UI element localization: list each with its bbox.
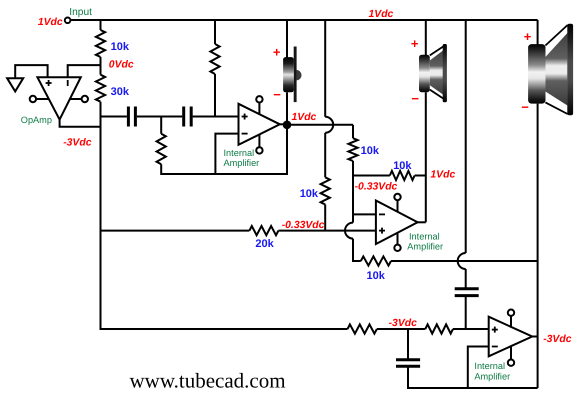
svg-text:10k: 10k (393, 160, 412, 172)
wire hop over 1Vdc wire (325, 117, 333, 133)
svg-text:Input: Input (69, 7, 92, 18)
svg-text:+: + (273, 45, 281, 60)
speaker SPK1 small (283, 47, 301, 103)
wire (465, 296, 467, 330)
svg-text:Internal: Internal (474, 361, 505, 371)
U2 power pin top (256, 96, 262, 114)
wire (214, 74, 216, 117)
resistor R9 20k (249, 226, 278, 250)
label Internal Amplifier U3 (407, 232, 443, 252)
svg-text:Amplifier: Amplifier (224, 158, 260, 168)
svg-text:10k: 10k (300, 188, 319, 200)
label SPK2 + (411, 36, 419, 51)
op-amp U4 body (489, 317, 533, 357)
wire (286, 20, 288, 58)
capacitor C2 (184, 107, 192, 127)
resistor R1 10k (96, 30, 130, 57)
node 0Vdc / wire (101, 57, 134, 75)
resistor R5 feedback (157, 134, 166, 164)
svg-text:1Vdc: 1Vdc (369, 9, 394, 20)
svg-text:1Vdc: 1Vdc (38, 17, 63, 28)
wire (101, 116, 127, 118)
label 1Vdc top rail (369, 9, 394, 20)
wire U1 + input (15, 65, 47, 78)
wire (425, 92, 427, 222)
wire (286, 92, 288, 125)
wire (353, 239, 361, 261)
svg-text:0Vdc: 0Vdc (109, 59, 134, 70)
label 1Vdc U2 output (292, 112, 317, 123)
wire (352, 125, 354, 138)
resistor R12 (425, 324, 453, 333)
wire U1 output -3Vdc (60, 119, 101, 127)
svg-text:+: + (524, 29, 532, 44)
wire (425, 20, 427, 55)
wire junction drop (160, 117, 162, 134)
svg-text:10k: 10k (111, 41, 130, 53)
input terminal (38, 7, 92, 28)
svg-text:Amplifier: Amplifier (407, 242, 443, 252)
label SPK3 + (524, 29, 532, 44)
svg-text:Internal: Internal (224, 148, 255, 158)
resistor R11 (348, 324, 377, 333)
wire (137, 116, 182, 118)
svg-text:30k: 30k (111, 86, 130, 98)
svg-text:−: − (273, 87, 281, 102)
label SPK1 + (273, 45, 281, 60)
wire (193, 116, 239, 118)
wire (100, 20, 102, 30)
U4 power pin top (508, 310, 514, 327)
op-amp U2 body (239, 104, 280, 145)
svg-text:10k: 10k (367, 270, 386, 282)
svg-text:1Vdc: 1Vdc (292, 112, 317, 123)
U1 power pin left (30, 96, 49, 102)
op-amp U1 OpAmp body (37, 77, 80, 119)
U3 power pin top (394, 194, 400, 212)
resistor R10 10k (361, 256, 391, 282)
wire top rail 1Vdc (71, 19, 538, 21)
svg-text:-3Vdc: -3Vdc (543, 334, 572, 345)
wire U4 - input (468, 347, 489, 389)
wire (324, 205, 326, 231)
resistor R7 10k (348, 138, 379, 161)
U4 power pin bottom (508, 346, 514, 366)
wire (377, 328, 425, 330)
U1 power pin right (70, 96, 88, 102)
U3 power pin bottom (394, 233, 400, 251)
capacitor C4 (396, 360, 420, 367)
wire (214, 20, 216, 44)
svg-text:−: − (521, 100, 529, 115)
svg-text:-0.33Vdc: -0.33Vdc (355, 181, 398, 192)
speaker SPK2 mid (419, 44, 447, 102)
label -3Vdc wire (389, 318, 418, 329)
resistor R3 (210, 44, 219, 74)
label Internal Amplifier U2 (224, 148, 260, 168)
label -0.33Vdc node (355, 181, 398, 192)
wire (415, 175, 426, 177)
svg-text:OpAmp: OpAmp (21, 115, 52, 125)
speaker SPK3 big (528, 24, 573, 116)
label 1Vdc U3 output (430, 169, 455, 180)
wire (101, 230, 250, 232)
wire (465, 20, 467, 253)
wire (408, 366, 538, 388)
wire U4 output (531, 336, 537, 338)
label OpAmp (21, 115, 52, 125)
wire (391, 260, 538, 262)
label -0.33Vdc wire (282, 220, 325, 231)
svg-text:20k: 20k (255, 238, 274, 250)
wire (407, 329, 409, 360)
resistor R6 10k (300, 177, 330, 204)
svg-text:1Vdc: 1Vdc (430, 169, 455, 180)
label SPK2 - (411, 91, 419, 106)
resistor R2 30k (96, 75, 130, 102)
label -3Vdc U4 output (543, 334, 572, 345)
wire U3 - input (353, 213, 376, 215)
label Internal Amplifier U4 (474, 361, 510, 381)
capacitor C3 (455, 289, 479, 296)
svg-text:www.tubecad.com: www.tubecad.com (130, 368, 286, 392)
wire (537, 20, 539, 45)
svg-text:Amplifier: Amplifier (474, 371, 510, 381)
wire (324, 20, 326, 117)
site text www.tubecad.com (130, 368, 286, 392)
wire (537, 104, 539, 388)
wire (101, 328, 348, 330)
node U2 output junction dot (283, 121, 292, 130)
label SPK1 - (273, 87, 281, 102)
wire (161, 125, 287, 174)
wire U1 - input to node 0Vdc (68, 65, 101, 77)
wire U2 - input (215, 134, 238, 174)
wire (465, 269, 467, 288)
wire (352, 161, 354, 214)
svg-text:−: − (411, 91, 419, 106)
label -3Vdc U1 output (63, 138, 92, 149)
svg-text:+: + (411, 36, 419, 51)
op-amp U3 body (376, 201, 418, 245)
label SPK3 - (521, 100, 529, 115)
wire U3 output (417, 221, 426, 223)
wire (324, 133, 326, 178)
wire U2 output (279, 123, 287, 125)
wire (353, 175, 390, 177)
wire (100, 102, 102, 330)
input arrow symbol (7, 78, 23, 91)
wire hop over feedback wire (458, 253, 466, 269)
wire 1Vdc from U2 output (287, 124, 353, 126)
svg-text:-0.33Vdc: -0.33Vdc (282, 220, 325, 231)
svg-text:Internal: Internal (409, 232, 440, 242)
svg-text:10k: 10k (361, 145, 380, 157)
svg-text:-3Vdc: -3Vdc (63, 138, 92, 149)
resistor R8 10k (390, 160, 415, 180)
U2 power pin bottom (256, 135, 262, 154)
svg-text:-3Vdc: -3Vdc (389, 318, 418, 329)
wire (352, 214, 354, 222)
wire (278, 230, 376, 232)
wire (453, 328, 489, 330)
wire hop over + wire (345, 223, 353, 239)
capacitor C1 (128, 107, 135, 127)
